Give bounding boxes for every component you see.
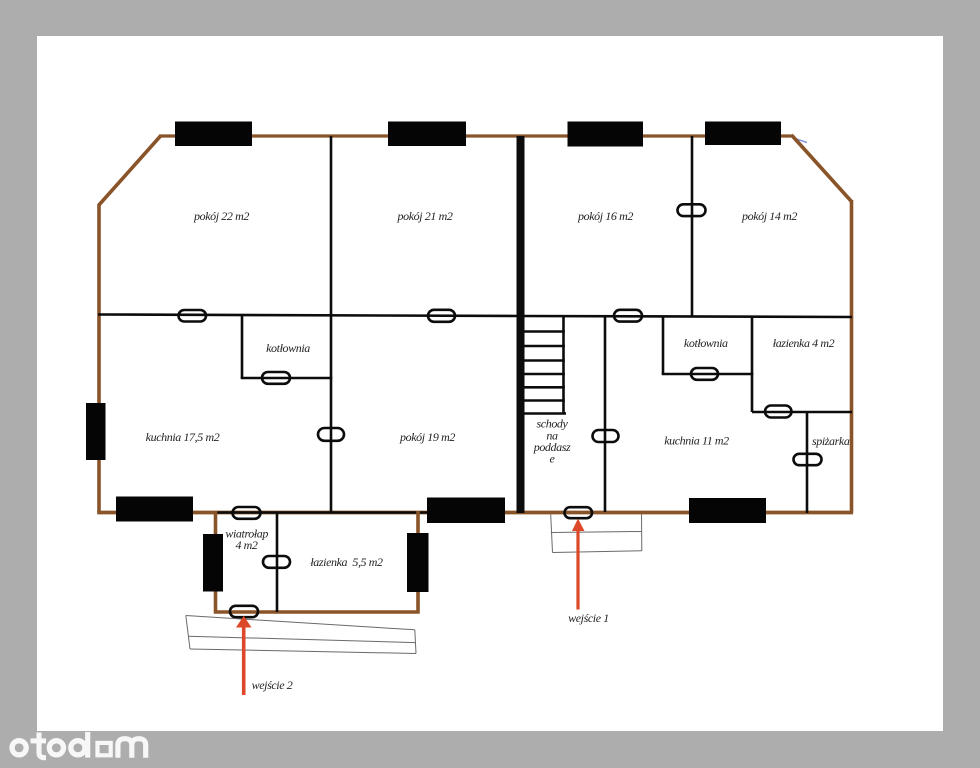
stairs: rung 2 (525, 345, 565, 348)
logo letter t (39, 733, 46, 758)
door: wejscie1 (565, 507, 593, 518)
outer wall: wiatrolap/lazienka bottom (214, 610, 420, 614)
arrow: wejscie2 (236, 616, 252, 695)
door: pokoj21 (428, 310, 455, 322)
door: pokoj14 (678, 204, 706, 216)
door: pokoj22 (179, 310, 207, 322)
outer wall: left (97, 204, 101, 512)
wall: bottom black segment (wiatrolap/lazienka top) (214, 511, 430, 514)
stairs: rung 5 (525, 386, 565, 389)
wall: kotlownia-left bottom (241, 377, 333, 380)
outer wall: wiatrolap left (214, 511, 218, 614)
window: lazienka5 right (407, 533, 429, 592)
wall: lazienka4 left (751, 316, 754, 412)
window: wiatrolap left (203, 534, 223, 592)
logo letter d (71, 741, 85, 755)
arrow: wejscie1 (572, 519, 585, 610)
wall: divider x605 (schody/kuchnia11) (604, 316, 607, 512)
door: wiatrolap/lazienka5 (263, 556, 290, 568)
outer wall: top-right diagonal (792, 135, 852, 202)
steps sketch: wejscie1 (551, 515, 642, 553)
door: wejscie2 (230, 606, 258, 617)
wall: lazienka4 bottom (752, 411, 852, 414)
wall: kotlownia-right bottom (662, 373, 754, 376)
outer wall: right (850, 200, 854, 513)
wall: thick staircase wall (517, 136, 525, 513)
window: pokoj14 top (705, 122, 781, 146)
outer wall: top-left diagonal (99, 136, 161, 206)
wall: kotlownia-right left (662, 316, 665, 374)
wall: divider pokoj16/14 (691, 136, 694, 316)
logo square (98, 743, 111, 755)
window: pokoj16 top (568, 122, 644, 147)
wall: divider pokoj22/21 and kuchnia/pokoj19 (330, 136, 333, 512)
window: kuchnia17 left (86, 403, 106, 460)
stairs: rung 6 (525, 399, 565, 402)
window: pokoj19 bottom (427, 498, 505, 524)
stairs: rung 1 (525, 330, 565, 333)
stairs: rung 3 (525, 359, 565, 362)
door: pokoj16 (614, 310, 642, 322)
wall: main horizontal (98, 315, 852, 318)
window: pokoj22 top (175, 122, 252, 147)
blue artifact line (792, 138, 807, 143)
wall: spizarka left (806, 412, 809, 513)
outer wall: lazienka 5,5 right (416, 511, 420, 614)
window: kuchnia17 bottom (116, 497, 193, 522)
window: kuchnia11 bottom (689, 498, 766, 523)
wall: kotlownia-left left (241, 315, 244, 378)
door: schody/kuchnia11 (593, 430, 619, 442)
logo letter m (118, 739, 146, 758)
logo letter o2 (49, 741, 63, 755)
door: spizarka (794, 454, 822, 465)
door: kotlownia-left (262, 372, 290, 384)
door: kuchnia17/pokoj19 (318, 428, 344, 441)
door: kuchnia/wiatrolap (233, 507, 261, 519)
outer wall: top (159, 134, 793, 137)
logo letter o1 (12, 741, 26, 755)
door: kotlownia-right (691, 368, 718, 380)
outer wall: bottom (97, 511, 853, 515)
stairs: rung 4 (525, 373, 565, 376)
wall: wiatrolap/lazienka divider (276, 513, 279, 612)
stairs: rung 7 (525, 412, 567, 415)
steps sketch: wejscie2 (186, 616, 416, 654)
door: lazienka4 (765, 406, 792, 418)
wall: stairs right edge (562, 316, 565, 414)
window: pokoj21 top (388, 122, 466, 147)
